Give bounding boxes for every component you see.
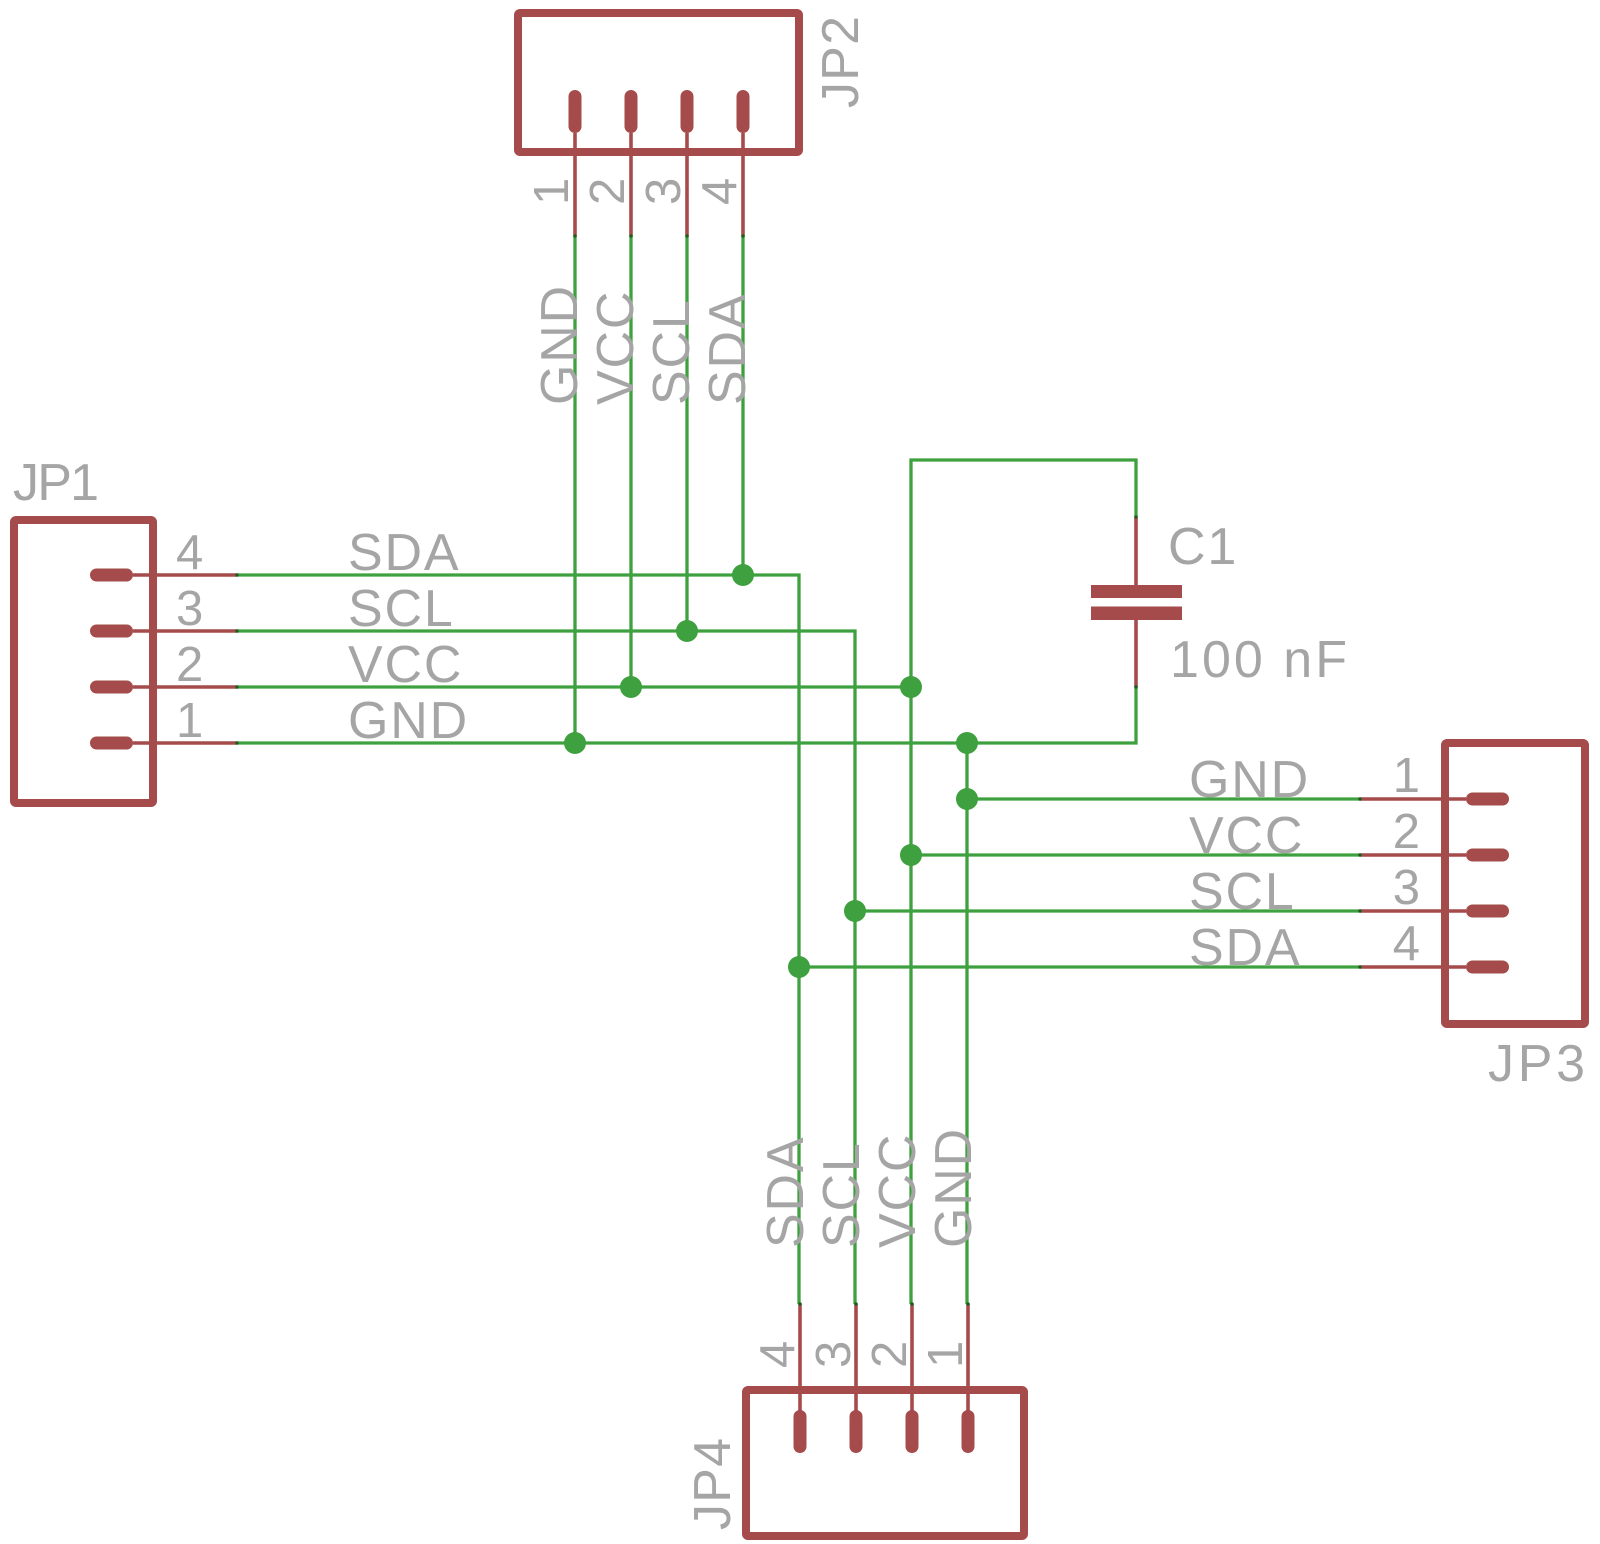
svg-text:SCL: SCL (348, 580, 455, 638)
svg-text:2: 2 (176, 638, 203, 692)
svg-text:GND: GND (925, 1127, 983, 1248)
svg-text:1: 1 (1393, 749, 1420, 803)
svg-text:SDA: SDA (699, 293, 757, 405)
svg-text:VCC: VCC (587, 290, 645, 405)
svg-text:JP1: JP1 (13, 454, 99, 512)
svg-text:SDA: SDA (757, 1136, 815, 1248)
svg-text:SCL: SCL (1189, 863, 1296, 921)
svg-text:1: 1 (176, 694, 203, 748)
svg-text:4: 4 (1393, 917, 1420, 971)
svg-text:JP3: JP3 (1488, 1035, 1585, 1093)
svg-text:3: 3 (1393, 861, 1420, 915)
svg-text:4: 4 (693, 178, 747, 205)
svg-text:GND: GND (531, 284, 589, 405)
svg-text:VCC: VCC (869, 1133, 927, 1248)
svg-text:1: 1 (525, 178, 579, 205)
svg-text:SCL: SCL (813, 1141, 871, 1248)
svg-text:SDA: SDA (348, 524, 460, 582)
svg-text:JP2: JP2 (812, 16, 870, 108)
svg-text:SCL: SCL (643, 298, 701, 405)
svg-text:4: 4 (176, 526, 203, 580)
svg-text:4: 4 (751, 1341, 805, 1368)
svg-text:3: 3 (176, 582, 203, 636)
svg-text:C1: C1 (1168, 518, 1238, 576)
svg-text:2: 2 (581, 178, 635, 205)
svg-text:VCC: VCC (348, 636, 463, 694)
svg-text:100 nF: 100 nF (1170, 631, 1347, 689)
svg-text:2: 2 (1393, 805, 1420, 859)
svg-text:GND: GND (348, 692, 469, 750)
svg-text:GND: GND (1189, 751, 1310, 809)
svg-text:3: 3 (637, 178, 691, 205)
svg-text:2: 2 (863, 1341, 917, 1368)
svg-text:3: 3 (807, 1341, 861, 1368)
svg-text:VCC: VCC (1189, 807, 1304, 865)
svg-text:1: 1 (919, 1341, 973, 1368)
svg-text:SDA: SDA (1189, 919, 1301, 977)
svg-text:JP4: JP4 (684, 1438, 742, 1530)
